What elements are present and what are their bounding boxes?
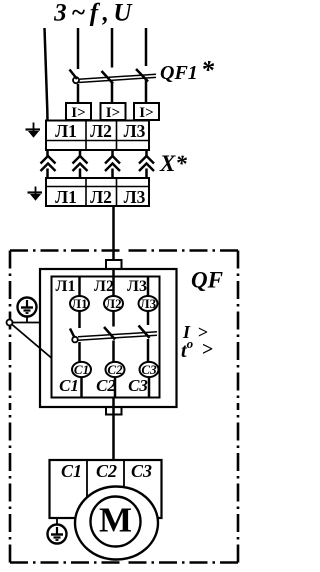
svg-text:Л3: Л3: [127, 278, 147, 295]
svg-text:I>: I>: [106, 105, 120, 121]
svg-text:I>: I>: [139, 105, 153, 121]
svg-text:Л3: Л3: [124, 187, 146, 207]
svg-text:>: >: [202, 339, 213, 361]
svg-text:QF1: QF1: [160, 62, 198, 84]
svg-text:M: M: [99, 501, 132, 540]
svg-text:Л1: Л1: [71, 296, 87, 311]
svg-text:C2: C2: [96, 376, 116, 395]
svg-text:Л1: Л1: [55, 121, 77, 141]
svg-text:C3: C3: [141, 362, 157, 377]
svg-text:to: to: [181, 336, 194, 362]
svg-text:C3: C3: [128, 376, 148, 395]
svg-text:Л3: Л3: [124, 121, 146, 141]
svg-text:Л2: Л2: [94, 278, 114, 295]
svg-text:Л3: Л3: [140, 296, 157, 311]
svg-text:X*: X*: [159, 151, 187, 176]
svg-text:3~f,U: 3~f,U: [53, 0, 136, 27]
svg-text:C1: C1: [59, 376, 79, 395]
svg-text:*: *: [201, 56, 215, 85]
svg-text:Л1: Л1: [56, 278, 76, 295]
svg-text:Л2: Л2: [105, 296, 121, 311]
svg-text:C3: C3: [131, 461, 152, 481]
svg-text:Л1: Л1: [55, 187, 77, 207]
svg-text:C2: C2: [107, 362, 123, 377]
svg-text:C1: C1: [74, 362, 89, 377]
svg-text:I>: I>: [71, 105, 85, 121]
svg-text:Л2: Л2: [90, 187, 112, 207]
svg-text:QF: QF: [191, 268, 223, 293]
svg-text:Л2: Л2: [90, 121, 112, 141]
svg-text:C2: C2: [96, 461, 117, 481]
svg-text:C1: C1: [61, 461, 82, 481]
